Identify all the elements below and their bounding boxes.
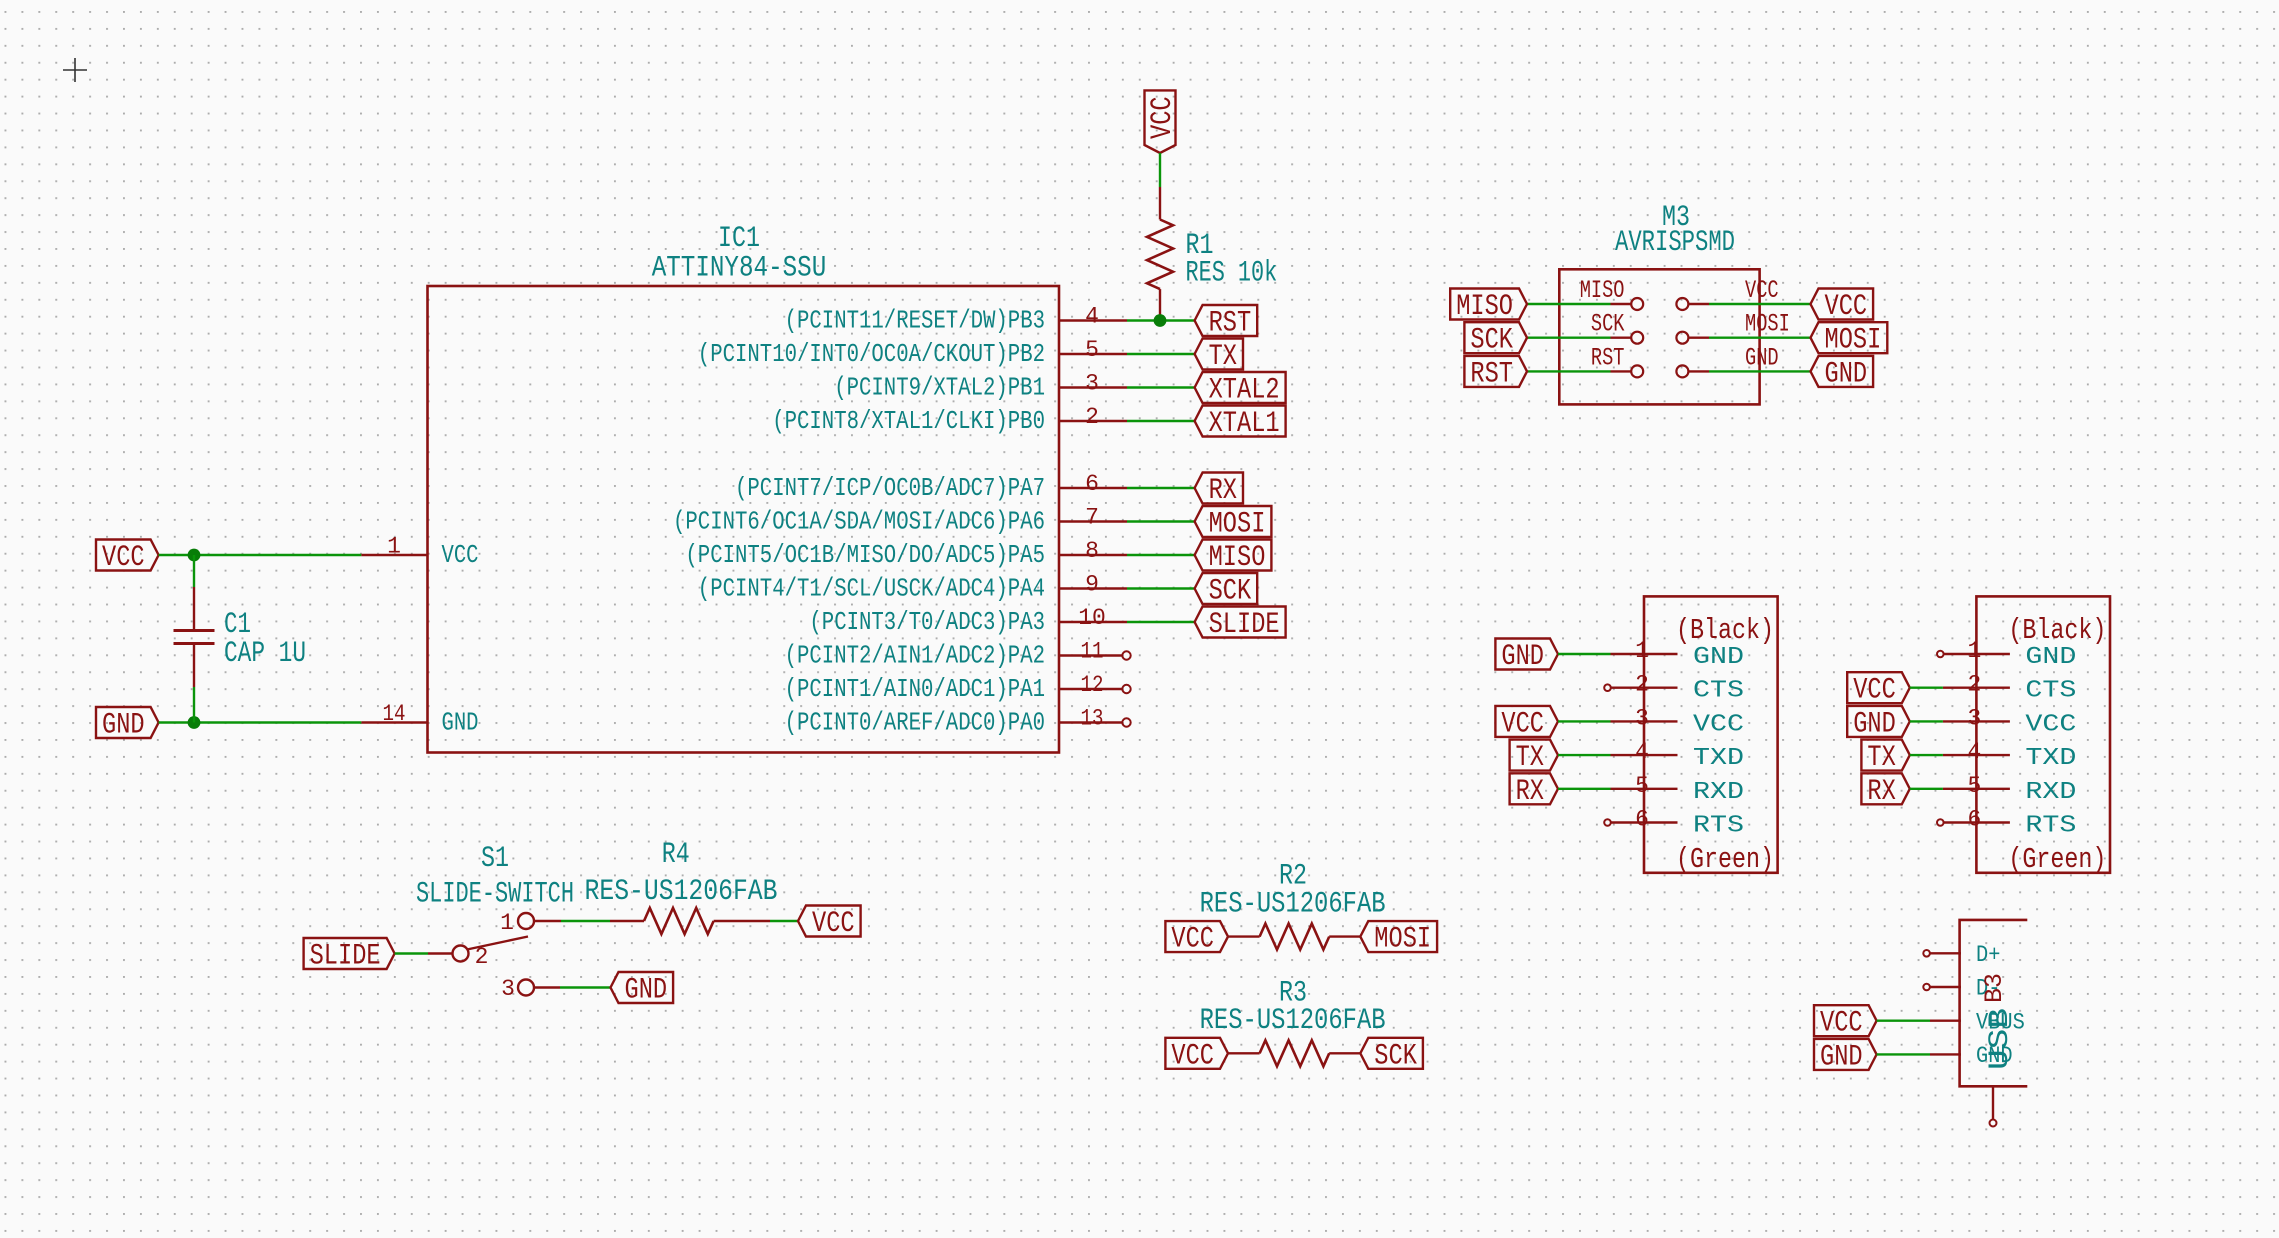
svg-text:6: 6 — [1085, 471, 1099, 497]
svg-text:MISO: MISO — [1209, 541, 1266, 575]
wire pin9 to SCK flag — [1127, 587, 1195, 589]
net label SCK (M3 left) — [1464, 322, 1527, 353]
net label XTAL2 — [1195, 372, 1286, 403]
svg-text:2: 2 — [1967, 672, 1981, 698]
svg-text:8: 8 — [1085, 538, 1099, 564]
svg-text:11: 11 — [1081, 639, 1104, 665]
wire pin7 to MOSI flag — [1127, 520, 1195, 522]
svg-text:(Green): (Green) — [2008, 843, 2106, 876]
IC1 pin 8 (PCINT5/OC1B/MISO/DO/ADC5)PA5 — [685, 538, 1127, 570]
wire SCK flag to M3 SCK — [1527, 337, 1611, 339]
connector CON1 pin 4 TXD — [1611, 739, 1745, 772]
svg-text:(PCINT1/AIN0/ADC1)PA1: (PCINT1/AIN0/ADC1)PA1 — [785, 674, 1045, 704]
connector CON2 body — [1976, 596, 2110, 872]
svg-text:RES 10k: RES 10k — [1186, 257, 1278, 291]
svg-text:AVRISPSMD: AVRISPSMD — [1615, 226, 1735, 260]
M3 right pin GND — [1676, 343, 1778, 377]
IC1 pin 13 (PCINT0/AREF/ADC0)PA0 (unconnected) — [785, 706, 1131, 738]
wire pin10 to SLIDE flag — [1127, 621, 1195, 623]
svg-text:RTS: RTS — [1693, 813, 1744, 840]
wire RX flag to CON2 pin5 — [1910, 788, 1943, 790]
wire pin6 to RX flag — [1127, 487, 1195, 489]
wire GND flag to CON1 pin1 — [1558, 653, 1611, 655]
S1 pin 1 lead — [534, 920, 561, 922]
svg-text:MOSI: MOSI — [1745, 310, 1790, 339]
svg-text:VCC: VCC — [1146, 96, 1180, 139]
svg-text:VCC: VCC — [442, 540, 479, 570]
svg-text:CTS: CTS — [1693, 678, 1744, 705]
net label VCC (CON1 pin3) — [1495, 706, 1558, 737]
svg-text:SCK: SCK — [1374, 1039, 1417, 1073]
power flag VCC (R4) — [798, 906, 861, 937]
svg-text:SLIDE-SWITCH: SLIDE-SWITCH — [416, 878, 574, 912]
svg-text:GND: GND — [1853, 707, 1896, 741]
wire GND flag to IC1 pin 14 — [159, 721, 362, 723]
IC1 pin 11 (PCINT2/AIN1/ADC2)PA2 (unconnected) — [785, 639, 1131, 671]
svg-text:VCC: VCC — [2025, 711, 2076, 738]
wire C1 to GND junction — [193, 687, 195, 723]
svg-text:4: 4 — [1635, 739, 1649, 765]
svg-text:TX: TX — [1209, 340, 1237, 374]
B3 pin D+ — [1923, 942, 2000, 968]
IC1 pin 10 (PCINT3/T0/ADC3)PA3 — [809, 605, 1127, 637]
svg-text:RST: RST — [1209, 307, 1252, 341]
wire GND flag to CON2 pin3 — [1910, 720, 1943, 722]
svg-text:SCK: SCK — [1470, 324, 1513, 358]
junction node VCC — [188, 549, 201, 562]
svg-text:7: 7 — [1085, 505, 1099, 531]
net label MISO (M3 left) — [1450, 289, 1527, 320]
M3 right pin MOSI — [1676, 310, 1789, 344]
net label GND (M3 right) — [1811, 356, 1874, 387]
M3 left pin MISO — [1580, 276, 1644, 310]
connector CON2 pin 6 RTS — [1943, 807, 2076, 840]
svg-text:3: 3 — [1085, 371, 1099, 397]
svg-text:2: 2 — [1085, 404, 1099, 430]
svg-text:SCK: SCK — [1591, 310, 1625, 339]
IC1 pin 2 (PCINT8/XTAL1/CLKI)PB0 — [772, 404, 1127, 436]
net label RX (CON2 pin5) — [1861, 773, 1909, 804]
power flag GND (USB) — [1814, 1039, 1877, 1070]
net label VCC (M3 right) — [1811, 289, 1874, 320]
svg-text:RTS: RTS — [2025, 813, 2076, 840]
svg-text:VCC: VCC — [1693, 711, 1744, 738]
B3 pin VBUS — [1930, 1009, 2025, 1035]
svg-text:14: 14 — [383, 701, 406, 727]
svg-text:RX: RX — [1209, 474, 1237, 508]
svg-text:TX: TX — [1867, 741, 1895, 775]
wire TX flag to CON2 pin4 — [1910, 754, 1943, 756]
power flag VCC (R3) — [1165, 1038, 1228, 1069]
connector CON2 pin 5 RXD — [1943, 773, 2076, 806]
svg-text:B3: B3 — [1980, 973, 2009, 1003]
power flag GND (S1) — [611, 972, 674, 1003]
svg-text:(Black): (Black) — [2008, 614, 2106, 647]
svg-text:VCC: VCC — [1171, 923, 1214, 957]
net label SLIDE — [1195, 607, 1286, 638]
capacitor C1 — [174, 587, 215, 687]
wire VCC flag to CON1 pin3 — [1558, 720, 1611, 722]
switch S1 SLIDE-SWITCH — [453, 910, 535, 1002]
svg-text:4: 4 — [1085, 304, 1099, 330]
svg-text:VCC: VCC — [812, 907, 855, 941]
IC1 pin 9 (PCINT4/T1/SCL/USCK/ADC4)PA4 — [698, 572, 1127, 604]
net label XTAL1 — [1195, 406, 1286, 437]
connector CON1 pin 2 CTS — [1611, 672, 1745, 705]
IC1 pin 5 (PCINT10/INT0/OC0A/CKOUT)PB2 — [698, 337, 1127, 369]
svg-text:(PCINT9/XTAL2)PB1: (PCINT9/XTAL2)PB1 — [834, 373, 1045, 403]
wire MISO flag to M3 MISO — [1527, 303, 1611, 305]
wire VCC flag to R1 — [1159, 153, 1161, 187]
connector M3 body AVRISPSMD — [1559, 269, 1759, 404]
svg-text:RX: RX — [1516, 775, 1544, 809]
svg-text:GND: GND — [102, 709, 145, 743]
IC1 pin 3 (PCINT9/XTAL2)PB1 — [834, 371, 1127, 403]
svg-text:9: 9 — [1085, 572, 1099, 598]
connector CON1 pin 1 GND — [1611, 638, 1745, 671]
resistor R1 — [1147, 187, 1173, 321]
svg-text:TX: TX — [1516, 741, 1544, 775]
svg-text:4: 4 — [1967, 739, 1981, 765]
net label MISO — [1195, 540, 1272, 571]
svg-text:MISO: MISO — [1456, 290, 1513, 324]
M3 right pin VCC — [1676, 276, 1778, 310]
wire VCC junction down to C1 — [193, 555, 195, 587]
svg-text:RES-US1206FAB: RES-US1206FAB — [1200, 887, 1386, 921]
wire VCC flag to B3 VBUS — [1877, 1020, 1930, 1022]
wire M3 MOSI to MOSI flag — [1709, 337, 1811, 339]
B3 pin GND — [1930, 1043, 2013, 1069]
svg-text:VCC: VCC — [1745, 276, 1779, 305]
svg-text:(PCINT4/T1/SCL/USCK/ADC4)PA4: (PCINT4/T1/SCL/USCK/ADC4)PA4 — [698, 574, 1045, 604]
svg-text:(PCINT7/ICP/OC0B/ADC7)PA7: (PCINT7/ICP/OC0B/ADC7)PA7 — [735, 473, 1045, 503]
wire pin4 to RST flag — [1127, 319, 1195, 321]
svg-text:TXD: TXD — [1693, 745, 1744, 772]
connector CON2 pin 1 GND — [1943, 638, 2076, 671]
svg-text:SLIDE: SLIDE — [310, 940, 381, 974]
junction node RST net — [1154, 314, 1167, 327]
svg-text:1: 1 — [500, 910, 514, 936]
net label MOSI (R2) — [1360, 921, 1437, 952]
IC1 pin 12 (PCINT1/AIN0/ADC1)PA1 (unconnected) — [785, 672, 1131, 704]
connector B3 USB body — [1960, 920, 2028, 1086]
svg-text:S1: S1 — [481, 842, 509, 876]
svg-text:VCC: VCC — [1825, 290, 1868, 324]
wire S1 pin1 to R4 — [561, 920, 610, 922]
svg-text:MOSI: MOSI — [1374, 923, 1431, 957]
svg-text:RST: RST — [1591, 343, 1625, 372]
IC1 pin 1 VCC — [361, 534, 478, 571]
wire GND flag to B3 GND — [1877, 1053, 1930, 1055]
svg-text:3: 3 — [1967, 705, 1981, 731]
svg-text:GND: GND — [2025, 644, 2076, 671]
wire pin8 to MISO flag — [1127, 554, 1195, 556]
svg-text:GND: GND — [1820, 1040, 1863, 1074]
connector CON2 pin 2 CTS — [1943, 672, 2076, 705]
connector CON2 pin 4 TXD — [1943, 739, 2076, 772]
svg-text:MOSI: MOSI — [1825, 324, 1882, 358]
wire SLIDE flag to S1 pin 2 — [395, 952, 428, 954]
svg-text:(PCINT10/INT0/OC0A/CKOUT)PB2: (PCINT10/INT0/OC0A/CKOUT)PB2 — [698, 339, 1045, 369]
M3 left pin SCK — [1591, 310, 1643, 344]
net label MOSI (M3 right) — [1811, 322, 1888, 353]
svg-text:XTAL1: XTAL1 — [1209, 407, 1280, 441]
IC1 pin 14 GND — [361, 701, 478, 738]
svg-text:RES-US1206FAB: RES-US1206FAB — [585, 875, 778, 909]
svg-text:MOSI: MOSI — [1209, 508, 1266, 542]
svg-text:6: 6 — [1635, 807, 1649, 833]
svg-text:2: 2 — [475, 944, 489, 970]
net label SCK (R3) — [1360, 1038, 1423, 1069]
wire VCC flag to IC1 pin 1 — [159, 554, 362, 556]
svg-text:12: 12 — [1081, 672, 1104, 698]
svg-text:GND: GND — [1501, 640, 1544, 674]
svg-text:RES-US1206FAB: RES-US1206FAB — [1200, 1004, 1386, 1038]
svg-text:TXD: TXD — [2025, 745, 2076, 772]
power flag VCC (top, above R1) — [1145, 90, 1176, 153]
svg-text:R4: R4 — [662, 838, 690, 872]
IC IC1 body ATTINY84-SSU — [428, 286, 1060, 753]
svg-text:ATTINY84-SSU: ATTINY84-SSU — [652, 252, 827, 286]
svg-text:VCC: VCC — [1853, 674, 1896, 708]
wire VCC flag to CON2 pin2 — [1910, 687, 1943, 689]
svg-text:3: 3 — [1635, 705, 1649, 731]
svg-text:10: 10 — [1078, 605, 1106, 631]
M3 left pin RST — [1591, 343, 1643, 377]
svg-text:SLIDE: SLIDE — [1209, 608, 1280, 642]
svg-text:(PCINT6/OC1A/SDA/MOSI/ADC6)PA6: (PCINT6/OC1A/SDA/MOSI/ADC6)PA6 — [673, 507, 1045, 537]
S1 pin 3 lead — [534, 986, 560, 988]
wire M3 GND to GND flag — [1709, 370, 1811, 372]
svg-text:5: 5 — [1635, 773, 1649, 799]
net label GND (CON2 pin3) — [1847, 706, 1910, 737]
svg-text:CAP 1U: CAP 1U — [224, 637, 306, 671]
svg-text:RX: RX — [1867, 775, 1895, 809]
svg-text:2: 2 — [1635, 672, 1649, 698]
svg-text:(PCINT3/T0/ADC3)PA3: (PCINT3/T0/ADC3)PA3 — [809, 607, 1045, 637]
wire RX flag to CON1 pin5 — [1558, 788, 1611, 790]
svg-text:RXD: RXD — [1693, 779, 1744, 806]
svg-text:VCC: VCC — [1501, 707, 1544, 741]
svg-text:RST: RST — [1470, 357, 1513, 391]
svg-text:GND: GND — [1825, 357, 1868, 391]
svg-text:D+: D+ — [1976, 942, 2000, 968]
net label TX (CON2 pin4) — [1861, 740, 1909, 771]
net label RX — [1195, 473, 1243, 504]
svg-text:(Black): (Black) — [1676, 614, 1774, 647]
svg-text:3: 3 — [501, 976, 515, 1002]
svg-text:(PCINT0/AREF/ADC0)PA0: (PCINT0/AREF/ADC0)PA0 — [785, 708, 1045, 738]
resistor R2 — [1228, 924, 1360, 950]
IC1 pin 4 (PCINT11/RESET/DW)PB3 — [785, 304, 1127, 336]
S1 pin 2 lead — [428, 952, 453, 954]
wire S1 pin3 to GND flag — [560, 986, 611, 988]
wire M3 VCC to VCC flag — [1709, 303, 1811, 305]
wire RST flag to M3 RST — [1527, 370, 1611, 372]
wire pin5 to TX flag — [1127, 353, 1195, 355]
connector CON1 pin 3 VCC — [1611, 705, 1745, 738]
power flag VCC (R2) — [1165, 921, 1228, 952]
svg-text:GND: GND — [1745, 343, 1779, 372]
power flag VCC (USB VBUS) — [1814, 1005, 1877, 1036]
svg-text:6: 6 — [1967, 807, 1981, 833]
connector CON1 pin 6 RTS — [1611, 807, 1745, 840]
resistor R4 — [610, 908, 770, 934]
svg-text:VCC: VCC — [102, 541, 145, 575]
power flag GND (left) — [96, 707, 159, 738]
resistor R3 — [1228, 1040, 1360, 1066]
net label GND (CON1 pin1) — [1495, 639, 1558, 670]
svg-text:CTS: CTS — [2025, 678, 2076, 705]
svg-text:GND: GND — [625, 974, 668, 1008]
svg-text:VCC: VCC — [1171, 1039, 1214, 1073]
net label SLIDE (switch) — [304, 938, 395, 969]
net label TX (CON1 pin4) — [1510, 740, 1558, 771]
IC1 pin 6 (PCINT7/ICP/OC0B/ADC7)PA7 — [735, 471, 1127, 503]
svg-text:5: 5 — [1085, 337, 1099, 363]
net label SCK — [1195, 573, 1258, 604]
net label RX (CON1 pin5) — [1510, 773, 1558, 804]
sheet origin cross marker — [63, 58, 87, 82]
connector CON2 pin 3 VCC — [1943, 705, 2076, 738]
net label RST — [1195, 305, 1258, 336]
svg-text:VCC: VCC — [1820, 1007, 1863, 1041]
svg-text:13: 13 — [1081, 706, 1104, 732]
svg-text:(PCINT11/RESET/DW)PB3: (PCINT11/RESET/DW)PB3 — [785, 306, 1045, 336]
net label VCC (CON2 pin2) — [1847, 672, 1910, 703]
no-connect stub CON1 pin2 — [1604, 684, 1611, 691]
connector CON1 body — [1644, 596, 1778, 872]
svg-text:5: 5 — [1967, 773, 1981, 799]
wire TX flag to CON1 pin4 — [1558, 754, 1611, 756]
IC1 pin 7 (PCINT6/OC1A/SDA/MOSI/ADC6)PA6 — [673, 505, 1127, 537]
wire pin3 to XTAL2 flag — [1127, 386, 1195, 388]
no-connect stub CON1 pin6 — [1604, 819, 1611, 826]
junction node GND — [188, 716, 201, 729]
svg-text:XTAL2: XTAL2 — [1209, 374, 1280, 408]
power flag VCC (left) — [96, 540, 159, 571]
svg-text:(PCINT2/AIN1/ADC2)PA2: (PCINT2/AIN1/ADC2)PA2 — [785, 641, 1045, 671]
net label MOSI — [1195, 506, 1272, 537]
connector CON1 pin 5 RXD — [1611, 773, 1745, 806]
svg-text:1: 1 — [387, 534, 401, 560]
wire pin2 to XTAL1 flag — [1127, 420, 1195, 422]
wire R4 to VCC flag — [770, 920, 798, 922]
svg-text:SCK: SCK — [1209, 575, 1252, 609]
svg-text:(PCINT8/XTAL1/CLKI)PB0: (PCINT8/XTAL1/CLKI)PB0 — [772, 406, 1045, 436]
B3 pin D- — [1923, 976, 2000, 1002]
net label RST (M3 left) — [1464, 356, 1527, 387]
svg-text:(PCINT5/OC1B/MISO/DO/ADC5)PA5: (PCINT5/OC1B/MISO/DO/ADC5)PA5 — [685, 540, 1045, 570]
svg-text:RXD: RXD — [2025, 779, 2076, 806]
no-connect stub CON2 pin6 — [1937, 819, 1944, 826]
svg-text:1: 1 — [1635, 638, 1649, 664]
B3 shield pin stub — [1990, 1086, 1997, 1126]
svg-text:MISO: MISO — [1580, 276, 1625, 305]
svg-text:GND: GND — [1693, 644, 1744, 671]
no-connect stub CON2 pin1 — [1937, 651, 1944, 658]
svg-text:1: 1 — [1967, 638, 1981, 664]
svg-text:GND: GND — [442, 708, 479, 738]
svg-text:USB: USB — [1985, 1008, 2016, 1070]
net label TX — [1195, 339, 1243, 370]
svg-text:(Green): (Green) — [1676, 843, 1774, 876]
